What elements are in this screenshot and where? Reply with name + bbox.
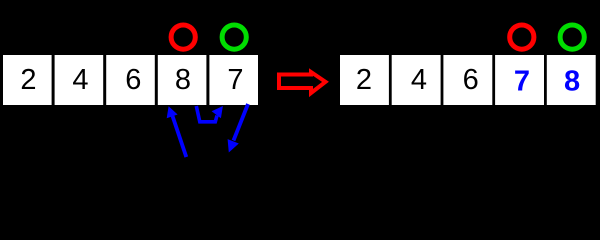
- right array cell 4 (value 7, swapped, blue bold): [495, 55, 544, 105]
- red hollow block arrow (transition): [279, 72, 326, 93]
- red marker circle over left cell 4: [171, 25, 195, 49]
- blue swap arrow down-left (from under cell 5 to bottom): [228, 104, 248, 153]
- left array cell 5 (value 7): [209, 55, 258, 105]
- svg-text:2: 2: [20, 64, 36, 96]
- green marker circle over right cell 5: [560, 25, 584, 49]
- blue U-shaped swap arrow between cell 4 and cell 5: [196, 106, 223, 122]
- right array cell 1 (value 2): [340, 55, 389, 105]
- right array cell 2 (value 4): [392, 55, 441, 105]
- svg-text:8: 8: [564, 65, 580, 97]
- red marker circle over right cell 4: [510, 25, 534, 49]
- green marker circle over left cell 5: [222, 25, 246, 49]
- svg-text:6: 6: [463, 64, 479, 96]
- svg-text:8: 8: [175, 64, 191, 96]
- svg-text:4: 4: [72, 64, 88, 96]
- blue swap arrow up-left (from bottom to under cell 4): [167, 106, 187, 157]
- svg-text:7: 7: [514, 65, 530, 97]
- svg-text:2: 2: [356, 64, 372, 96]
- left array cell 4 (value 8): [158, 55, 207, 105]
- right array cell 3 (value 6): [443, 55, 492, 105]
- left array cell 1 (value 2): [3, 55, 52, 105]
- left array cell 2 (value 4): [55, 55, 104, 105]
- svg-text:4: 4: [411, 64, 427, 96]
- svg-text:6: 6: [125, 64, 141, 96]
- svg-text:7: 7: [227, 64, 243, 96]
- left array cell 3 (value 6): [106, 55, 155, 105]
- right array cell 5 (value 8, swapped, blue bold): [547, 55, 596, 105]
